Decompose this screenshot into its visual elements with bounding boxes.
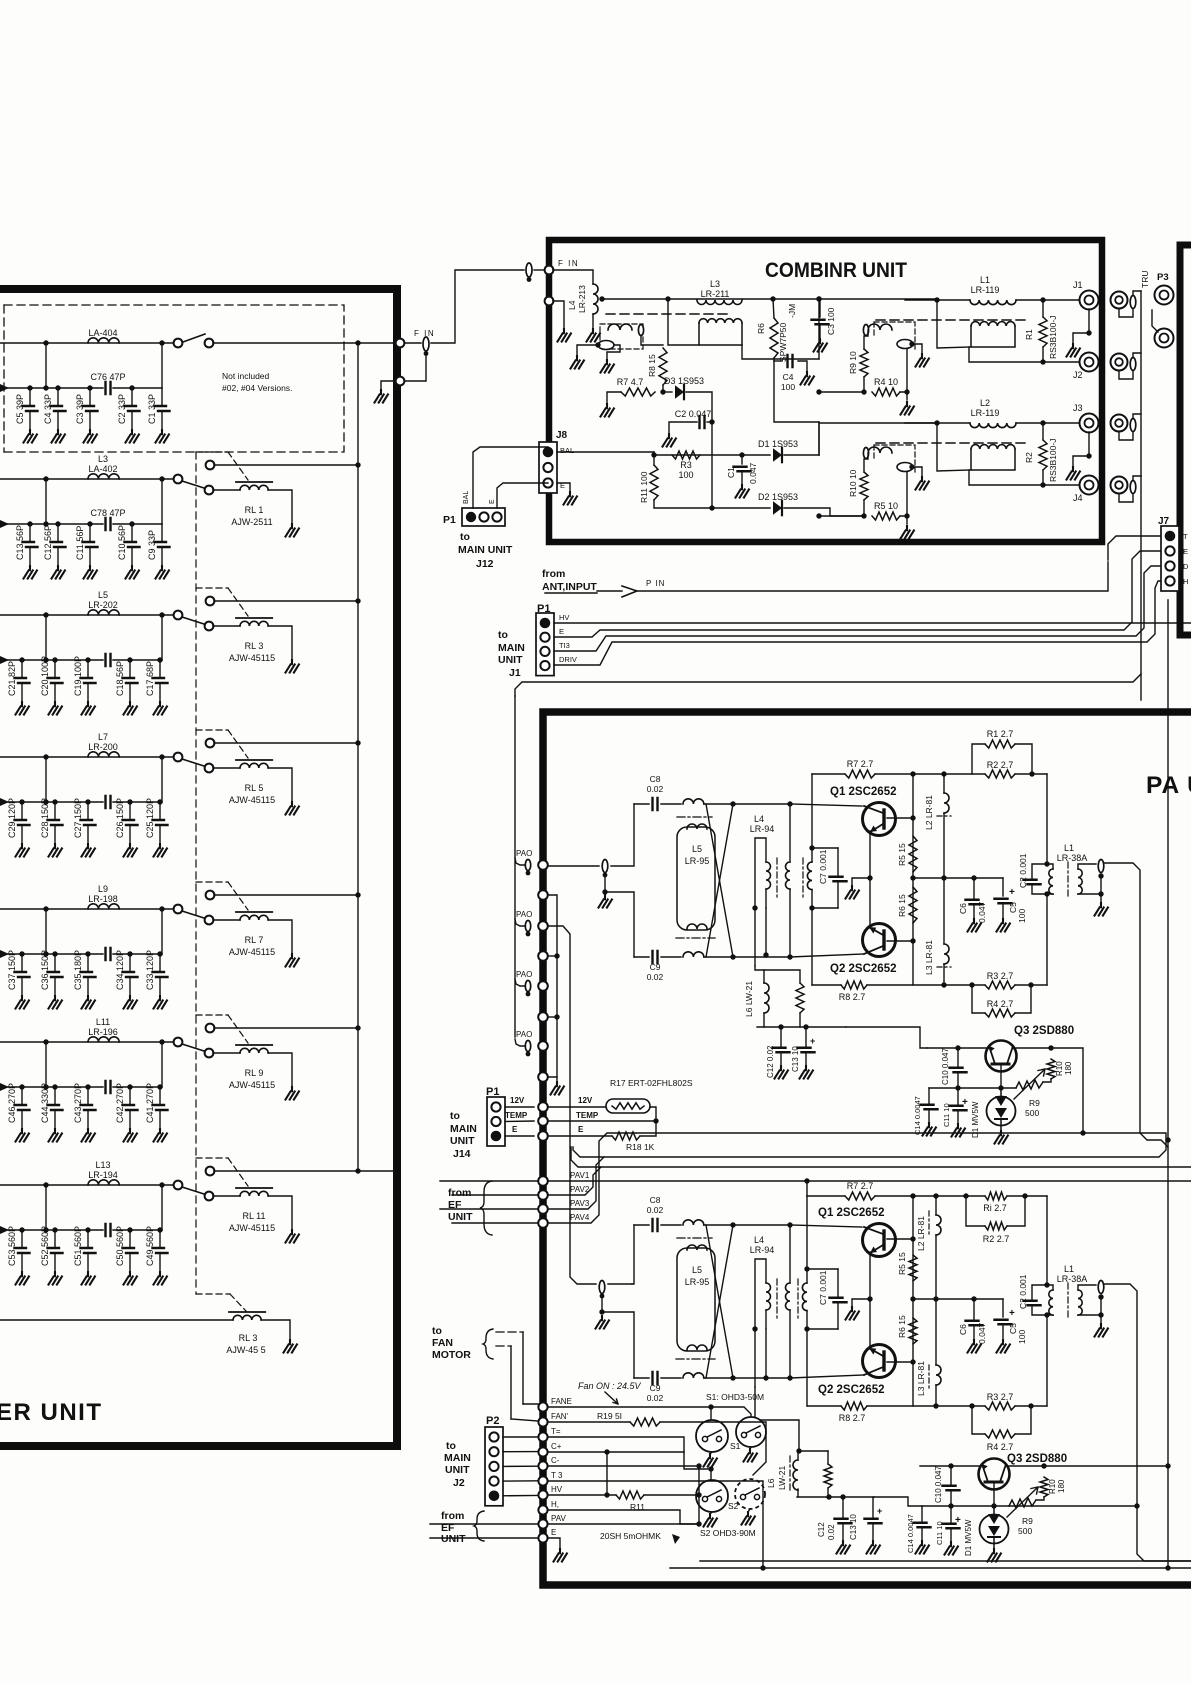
node pav border bbox=[538, 1218, 548, 1228]
wire e gnd bbox=[553, 301, 564, 329]
svg-text:C41 270P: C41 270P bbox=[145, 1083, 155, 1123]
capacitor C17 68P bbox=[159, 660, 161, 677]
svg-text:L6: L6 bbox=[766, 1478, 776, 1488]
wire channel main bbox=[905, 299, 937, 301]
junction bbox=[840, 1494, 845, 1499]
junction bbox=[87, 385, 92, 390]
wire r6 bot bbox=[773, 358, 775, 361]
wire drop left bbox=[45, 615, 47, 660]
svg-text:L11: L11 bbox=[96, 1017, 110, 1027]
ground bbox=[126, 430, 139, 443]
dashed option box left bbox=[3, 305, 5, 452]
svg-text:MAIN: MAIN bbox=[444, 1452, 471, 1464]
wire d2 row bbox=[712, 507, 770, 509]
capacitor C4 33P bbox=[57, 388, 59, 405]
node FAN' bbox=[538, 1417, 547, 1426]
wire c2 top bbox=[1032, 1285, 1047, 1299]
junction bbox=[816, 296, 821, 301]
thermistor R17 element bbox=[612, 1103, 644, 1109]
switch blade bbox=[182, 481, 204, 488]
capacitor series bbox=[106, 796, 111, 808]
svg-text:R4 2.7: R4 2.7 bbox=[987, 1442, 1014, 1452]
svg-text:S2: S2 bbox=[728, 1501, 739, 1511]
svg-text:PAV: PAV bbox=[551, 1514, 566, 1523]
ground bbox=[901, 402, 914, 415]
svg-text:+: + bbox=[1009, 887, 1015, 898]
relay contact bbox=[205, 1192, 214, 1201]
ground bbox=[916, 1541, 929, 1554]
junction bbox=[816, 389, 821, 394]
svg-text:-JM: -JM bbox=[787, 304, 797, 318]
wire rb top bbox=[764, 970, 800, 983]
transformer L1 primary bbox=[1049, 869, 1053, 894]
bypass contact bbox=[206, 1024, 215, 1033]
diode D2 1S953 bbox=[773, 501, 782, 515]
switch blade bbox=[183, 334, 205, 342]
capacitor C13 10 lower bbox=[865, 1519, 882, 1524]
transformer L3 secondary frame bbox=[699, 323, 742, 345]
svg-text:F IN: F IN bbox=[558, 259, 579, 268]
junction bbox=[941, 875, 946, 880]
junction bbox=[43, 612, 48, 617]
wire bead shield bbox=[604, 875, 606, 892]
junction bbox=[355, 892, 360, 897]
ground bbox=[554, 1549, 567, 1562]
node F IN combiner bbox=[545, 266, 554, 275]
svg-text:C33 120P: C33 120P bbox=[145, 950, 155, 990]
switch blade bbox=[182, 1044, 204, 1051]
svg-text:C8: C8 bbox=[650, 774, 661, 784]
wire pav int 1 bbox=[548, 1180, 1191, 1182]
junction bbox=[1044, 891, 1049, 896]
bead input bbox=[602, 860, 608, 873]
svg-text:HV: HV bbox=[559, 613, 569, 622]
wire caprow section4 bbox=[0, 801, 103, 803]
svg-text:BAL: BAL bbox=[463, 491, 470, 504]
junction bbox=[159, 1039, 164, 1044]
L5 coil top bbox=[687, 824, 707, 829]
wire rb bot lower bbox=[827, 1488, 829, 1497]
junction bbox=[816, 513, 821, 518]
junction bbox=[909, 341, 914, 346]
wire caprow section1b bbox=[113, 387, 162, 389]
wire pav e1 bbox=[430, 1523, 538, 1525]
svg-text:R3 2.7: R3 2.7 bbox=[987, 1392, 1014, 1402]
balun coil bbox=[868, 324, 892, 330]
wire l4 a bot bbox=[765, 1310, 767, 1329]
ground bbox=[704, 1454, 717, 1467]
svg-text:C76 47P: C76 47P bbox=[90, 372, 125, 382]
wire P IN to J7 bbox=[1108, 536, 1160, 560]
svg-text:UNIT: UNIT bbox=[441, 1533, 466, 1545]
svg-text:C10 0.047: C10 0.047 bbox=[941, 1048, 950, 1085]
wire drop right bbox=[161, 909, 163, 954]
svg-text:R6 15: R6 15 bbox=[897, 894, 907, 917]
wire caprow section7 bbox=[0, 1229, 103, 1231]
wire FANE bbox=[548, 1406, 711, 1408]
svg-text:J2: J2 bbox=[1073, 370, 1083, 380]
wire c7 bot bbox=[837, 881, 839, 908]
wire pav e2 bbox=[430, 1537, 538, 1539]
wire c14 gnd bbox=[921, 1529, 923, 1541]
wire drop right bbox=[161, 1185, 163, 1230]
cut arrow bbox=[0, 950, 9, 958]
junction bbox=[998, 1085, 1003, 1090]
wire l4 gnd bbox=[592, 314, 594, 329]
junction bbox=[43, 754, 48, 759]
svg-text:E: E bbox=[551, 1528, 556, 1537]
wire cross B bbox=[706, 1225, 733, 1378]
switch blade bbox=[182, 1187, 204, 1194]
wire r2 row bbox=[913, 773, 985, 775]
capacitor C8 0.02 bbox=[653, 1219, 658, 1231]
svg-text:RL 7: RL 7 bbox=[245, 935, 264, 945]
connector P3 jack2 bbox=[1155, 329, 1174, 348]
svg-text:T=: T= bbox=[551, 1427, 561, 1436]
svg-text:to: to bbox=[446, 1440, 456, 1452]
svg-text:C11 10: C11 10 bbox=[942, 1103, 951, 1127]
wire rail C bbox=[670, 1567, 1191, 1569]
wire q1 collector feed bbox=[790, 1225, 862, 1227]
dashed relay column bbox=[195, 452, 197, 1294]
svg-text:0.047: 0.047 bbox=[977, 901, 987, 923]
dashdot l6 lower bbox=[789, 1456, 791, 1492]
junction bbox=[910, 1296, 915, 1301]
ground bbox=[156, 566, 169, 579]
resistor R8 2.7 bbox=[841, 981, 867, 989]
ground bbox=[599, 895, 612, 908]
balun1 coil bbox=[608, 324, 632, 330]
ground bbox=[801, 372, 814, 385]
capacitor series bbox=[106, 1224, 111, 1236]
wire d3 row bbox=[663, 391, 672, 393]
junction bbox=[1165, 1137, 1170, 1142]
wire c14 lead bbox=[928, 1088, 930, 1103]
wire rail B bbox=[571, 1147, 1191, 1167]
switch blade bbox=[182, 759, 204, 766]
dashed coupling bbox=[876, 442, 1027, 444]
ground bbox=[286, 1230, 299, 1243]
junction bbox=[159, 340, 164, 345]
resistor R11 pa bbox=[616, 1491, 644, 1499]
wire section3 main bbox=[0, 614, 176, 616]
wire HV bbox=[554, 622, 1191, 624]
wire shield to c9 bbox=[605, 892, 634, 957]
svg-text:H,: H, bbox=[551, 1500, 559, 1509]
junction bbox=[604, 1492, 609, 1497]
svg-text:E: E bbox=[489, 499, 496, 504]
wire c2 bot bbox=[1032, 1307, 1047, 1315]
cut arrow bbox=[0, 798, 9, 806]
junction bbox=[127, 657, 132, 662]
ground bbox=[375, 390, 388, 403]
svg-text:AJW-45115: AJW-45115 bbox=[229, 947, 275, 957]
wire c2 bot bbox=[1032, 886, 1047, 894]
junction bbox=[803, 1024, 808, 1029]
coax bead 3 bbox=[1130, 419, 1136, 432]
wire r10 bot bbox=[1036, 1497, 1044, 1500]
dashdot l3 bbox=[928, 1365, 930, 1389]
wire section4 main bbox=[0, 756, 176, 758]
ground bbox=[704, 1514, 717, 1527]
svg-text:R8 2.7: R8 2.7 bbox=[839, 1413, 866, 1423]
wire c8 to coil bbox=[661, 803, 681, 805]
node pa border bbox=[538, 860, 548, 870]
capacitor C12 56P bbox=[57, 524, 59, 541]
svg-text:C19 100P: C19 100P bbox=[73, 656, 83, 696]
junction bbox=[52, 951, 57, 956]
wire emitter link bbox=[869, 1252, 871, 1349]
junction bbox=[934, 420, 939, 425]
junction bbox=[809, 845, 814, 850]
junction bbox=[739, 452, 744, 457]
node pa border bbox=[538, 890, 548, 900]
svg-text:R8 2.7: R8 2.7 bbox=[839, 992, 866, 1002]
capacitor C11 10 bbox=[950, 1106, 967, 1111]
transformer L3 primary bbox=[697, 300, 742, 305]
ground bbox=[16, 1129, 29, 1142]
ground bbox=[124, 996, 137, 1009]
capacitor C14 0.0047 bbox=[914, 1523, 931, 1528]
svg-text:C14 0.0047: C14 0.0047 bbox=[913, 1096, 922, 1135]
wire c2 left bbox=[669, 422, 697, 434]
wire pav in bbox=[452, 1194, 538, 1196]
inductor LR-198 bbox=[88, 904, 119, 909]
svg-text:D1 MV5W: D1 MV5W bbox=[971, 1101, 980, 1138]
junction bbox=[752, 1326, 757, 1331]
ground bbox=[82, 996, 95, 1009]
wire r7 gnd bbox=[607, 392, 621, 404]
svg-text:C46 270P: C46 270P bbox=[7, 1083, 17, 1123]
svg-text:PAO: PAO bbox=[516, 970, 532, 979]
switch contact section6 bbox=[174, 1038, 183, 1047]
junction bbox=[19, 1084, 24, 1089]
svg-text:D1 MV5W: D1 MV5W bbox=[964, 1519, 973, 1556]
inductor L6 LW-21 lower bbox=[793, 1460, 798, 1490]
wire C+2 bbox=[607, 1452, 711, 1469]
resistor R8 2.7 bbox=[841, 1402, 867, 1410]
svg-text:C50 560P: C50 560P bbox=[115, 1226, 125, 1266]
svg-text:12V: 12V bbox=[510, 1096, 525, 1105]
wire coil to x bbox=[704, 803, 733, 805]
capacitor C13 56P bbox=[29, 524, 31, 541]
wire r4 row left bbox=[819, 515, 864, 517]
resistor R10 10 bbox=[860, 472, 868, 500]
wire s1l top bbox=[710, 1407, 712, 1420]
pao bead bbox=[525, 981, 530, 992]
coax plug 3 bbox=[1111, 415, 1128, 432]
dashdot l2 bbox=[937, 815, 951, 817]
wire r4 right bbox=[900, 349, 907, 392]
svg-text:LR-38A: LR-38A bbox=[1057, 853, 1088, 863]
svg-text:AJW-45115: AJW-45115 bbox=[229, 653, 275, 663]
wire caprow section2 bbox=[0, 523, 103, 525]
junction bbox=[129, 521, 134, 526]
junction bbox=[1028, 1403, 1033, 1408]
ground bbox=[16, 1272, 29, 1285]
wire interstage down bbox=[811, 908, 813, 985]
switch contact section4 bbox=[174, 753, 183, 762]
junction bbox=[867, 875, 872, 880]
resistor R6 SPW7P50-JM bbox=[770, 318, 778, 358]
capacitor C51 560P bbox=[87, 1230, 89, 1247]
connector J7 bbox=[1161, 526, 1179, 591]
wire to relay coil bbox=[213, 489, 240, 491]
node E combiner bbox=[545, 297, 554, 306]
ground bbox=[154, 1272, 167, 1285]
dashed mech link rl13 diag bbox=[230, 1294, 246, 1311]
ground bbox=[988, 1549, 1001, 1562]
wire lower input bbox=[608, 1283, 632, 1285]
wire T trunk bbox=[1167, 600, 1169, 1147]
svg-text:C2 0.001: C2 0.001 bbox=[1018, 1274, 1028, 1309]
wire input bbox=[548, 865, 599, 867]
svg-text:C11 10: C11 10 bbox=[935, 1521, 944, 1545]
junction bbox=[760, 1565, 765, 1570]
svg-text:FANE: FANE bbox=[551, 1397, 572, 1406]
wire p2 bbox=[503, 1451, 538, 1453]
resistor R5 15 bbox=[909, 1255, 917, 1281]
dashed mech link diag bbox=[228, 882, 248, 910]
svg-text:H: H bbox=[1183, 577, 1188, 586]
wire c12 gnd lower bbox=[842, 1525, 844, 1541]
svg-text:LR-202: LR-202 bbox=[88, 600, 118, 610]
wire c13 gnd lower bbox=[872, 1525, 874, 1541]
feedthrough bead F IN bbox=[423, 337, 429, 351]
capacitor C12 0.02 lower bbox=[835, 1519, 852, 1524]
junction bbox=[709, 419, 714, 424]
wire q2 collector feed bbox=[790, 1375, 864, 1378]
wire emitter gnd stub bbox=[852, 1299, 870, 1307]
junction bbox=[809, 905, 814, 910]
wire out top bbox=[1046, 774, 1048, 864]
ground bbox=[916, 354, 929, 367]
junction bbox=[127, 1084, 132, 1089]
wire c7 top bbox=[837, 848, 839, 877]
wire r leads bbox=[1042, 423, 1044, 440]
wire fan1c bbox=[523, 1403, 538, 1405]
wire r7 row bbox=[807, 1195, 845, 1197]
wire iw top bbox=[811, 848, 813, 862]
wire c10 lead bbox=[950, 1466, 952, 1484]
capacitor C21 82P bbox=[21, 660, 23, 677]
wire to relay coil bbox=[213, 1195, 240, 1197]
wire T3 bbox=[548, 1481, 763, 1568]
resistor R5 15 bbox=[909, 836, 917, 872]
resistor R3 2.7 bbox=[985, 981, 1015, 989]
wire shield gnd bbox=[381, 381, 395, 390]
wire drop right bbox=[161, 1042, 163, 1087]
transistor Q3 2SD880 bbox=[979, 1459, 1010, 1490]
svg-text:R6: R6 bbox=[756, 323, 766, 334]
capacitor C6 0.047 bbox=[966, 900, 983, 905]
svg-text:P1: P1 bbox=[443, 514, 456, 526]
junction bbox=[826, 1494, 831, 1499]
junction bbox=[1040, 297, 1045, 302]
wire to D1 bbox=[742, 454, 770, 456]
junction bbox=[910, 771, 915, 776]
svg-text:R19 5I: R19 5I bbox=[597, 1411, 622, 1421]
junction bbox=[599, 296, 604, 301]
ground bbox=[837, 1541, 850, 1554]
wire bias stub bbox=[754, 1329, 756, 1387]
svg-text:LA-404: LA-404 bbox=[88, 328, 117, 338]
junction bbox=[87, 521, 92, 526]
wire c2 top bbox=[1032, 864, 1047, 878]
connector J4 bbox=[1080, 476, 1099, 495]
wire caprow section6 bbox=[0, 1086, 103, 1088]
wire l1s bot bbox=[1078, 876, 1101, 894]
ground bbox=[1067, 344, 1080, 357]
capacitor C28 150P bbox=[54, 802, 56, 819]
ground bbox=[923, 1123, 936, 1136]
svg-text:C7 0.001: C7 0.001 bbox=[818, 1270, 828, 1305]
svg-text:20SH 5mOHMK: 20SH 5mOHMK bbox=[600, 1531, 661, 1541]
thermistor R17 pill bbox=[606, 1099, 650, 1113]
transformer L2 LR-119 primary bbox=[970, 423, 1016, 428]
junction bbox=[963, 1193, 968, 1198]
ground bbox=[742, 1512, 755, 1525]
ground bbox=[124, 844, 137, 857]
inductor L5 LR-95 frame bbox=[677, 827, 715, 930]
ground bbox=[901, 526, 914, 539]
coax bead 1 bbox=[1130, 296, 1136, 309]
cut arrow bbox=[0, 1083, 9, 1091]
relay RL 7 coil bbox=[240, 915, 268, 920]
capacitor C2 0.001 bbox=[1024, 880, 1041, 885]
junction bbox=[43, 385, 48, 390]
junction bbox=[665, 296, 670, 301]
junction bbox=[955, 1045, 960, 1050]
wire r leads bbox=[1042, 300, 1044, 317]
svg-text:C14 0.0047: C14 0.0047 bbox=[906, 1514, 915, 1553]
svg-text:C78 47P: C78 47P bbox=[90, 508, 125, 518]
wire coax 2 bbox=[1119, 371, 1133, 379]
wire pav int 4 bbox=[548, 1133, 1080, 1223]
junction bbox=[355, 1025, 360, 1030]
capacitor C26 150P bbox=[129, 802, 131, 819]
bypass contact bbox=[206, 1167, 215, 1176]
L5 coil top bbox=[687, 1245, 707, 1250]
svg-text:L7: L7 bbox=[98, 732, 108, 742]
svg-text:C44 330P: C44 330P bbox=[40, 1083, 50, 1123]
pao bead bbox=[525, 921, 530, 932]
svg-text:L2: L2 bbox=[980, 398, 990, 408]
junction bbox=[651, 452, 656, 457]
wire c9 row bbox=[634, 956, 649, 958]
wire ant underline bbox=[545, 592, 597, 594]
wire to L bbox=[937, 299, 970, 301]
svg-text:T: T bbox=[1183, 532, 1188, 541]
ground bbox=[52, 430, 65, 443]
coax plug 1 bbox=[1111, 292, 1128, 309]
svg-text:R7 2.7: R7 2.7 bbox=[847, 1181, 874, 1191]
node E bbox=[538, 1533, 547, 1542]
svg-text:R10: R10 bbox=[1055, 1061, 1064, 1076]
wire balun gnd bbox=[913, 344, 922, 354]
switch S1a OHD3-50M bbox=[696, 1420, 728, 1452]
wire r4 gnd bbox=[906, 516, 908, 524]
wire r leads2 bbox=[1042, 470, 1044, 485]
capacitor C10 0.047 bbox=[950, 1068, 967, 1073]
wire c13 lead lower bbox=[872, 1497, 874, 1517]
junction bbox=[804, 1178, 809, 1183]
wire temp bbox=[548, 1120, 656, 1122]
svg-text:UNIT: UNIT bbox=[450, 1135, 475, 1147]
svg-text:C11 56P: C11 56P bbox=[75, 526, 85, 560]
ground bbox=[24, 430, 37, 443]
wire c12 lead bbox=[780, 1027, 782, 1046]
